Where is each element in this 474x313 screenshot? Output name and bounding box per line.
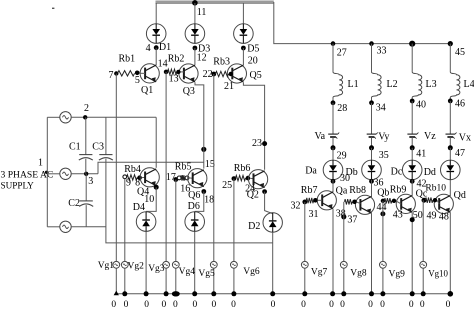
node 3 bbox=[84, 172, 88, 176]
transistor Qb bbox=[355, 195, 374, 214]
wire Rb3 to Q5 base bbox=[231, 73, 233, 75]
node 13 bbox=[164, 70, 169, 75]
wire rail to D3 bbox=[194, 3, 196, 24]
wire Vg1 bus bbox=[115, 74, 117, 294]
svg-text:4: 4 bbox=[146, 43, 151, 54]
rail junction bbox=[369, 291, 374, 296]
wire left bus bbox=[46, 117, 48, 227]
wire Q6 emitter to D6 bbox=[195, 192, 204, 212]
wire Rb2 to Q3 base bbox=[181, 71, 184, 73]
svg-text:2: 2 bbox=[84, 103, 89, 114]
svg-text:Vz: Vz bbox=[424, 131, 436, 142]
svg-text:0: 0 bbox=[124, 300, 129, 310]
wire rail to L1 bbox=[332, 44, 334, 72]
node 8 bbox=[137, 175, 142, 180]
svg-text:Rb8: Rb8 bbox=[349, 185, 366, 196]
rail junction bbox=[211, 291, 216, 296]
svg-text:40: 40 bbox=[416, 100, 426, 111]
rail junction bbox=[421, 291, 426, 296]
node Rb10 left bbox=[422, 198, 427, 203]
transistor Qa bbox=[317, 191, 336, 210]
wire diode Dc to Qc collector bbox=[411, 180, 413, 196]
wire rail to L4 bbox=[449, 44, 451, 72]
svg-text:Va: Va bbox=[315, 131, 326, 142]
source Vg5 bbox=[210, 261, 217, 268]
source Vg6 bbox=[231, 261, 238, 268]
capacitor C1 bbox=[79, 154, 92, 156]
wire node8 to Q4 base bbox=[142, 176, 145, 178]
terminal arrow at rail left end bbox=[114, 291, 119, 296]
svg-text:44: 44 bbox=[377, 202, 387, 213]
rail junction bbox=[231, 291, 236, 296]
source Vg4 bbox=[172, 261, 179, 268]
svg-text:17: 17 bbox=[166, 172, 176, 183]
svg-text:D2: D2 bbox=[248, 221, 260, 232]
wire node5 to Q1 base bbox=[139, 72, 145, 74]
svg-text:21: 21 bbox=[224, 81, 234, 92]
svg-text:3: 3 bbox=[88, 176, 93, 187]
wire node3 to C2 bbox=[85, 174, 87, 201]
wire Q3 emitter jog to node15 bus bbox=[195, 82, 204, 168]
node 28 bbox=[331, 100, 336, 105]
resistor Rb2 bbox=[168, 69, 177, 74]
wire Rb9 to Qc base bbox=[396, 201, 401, 204]
svg-text:9: 9 bbox=[126, 178, 131, 189]
node 15 bbox=[201, 147, 206, 152]
rail junction bbox=[270, 291, 275, 296]
wire Vg3 bus bbox=[165, 72, 167, 294]
svg-text:46: 46 bbox=[455, 98, 465, 109]
resistor Rb9 bbox=[384, 198, 392, 203]
svg-text:Rb10: Rb10 bbox=[425, 184, 446, 194]
svg-text:Qb: Qb bbox=[377, 187, 389, 198]
node 17 bbox=[173, 177, 178, 182]
svg-text:25: 25 bbox=[222, 180, 232, 191]
wire node 29 to diode Da bbox=[332, 148, 334, 160]
source Vg10 bbox=[420, 261, 427, 268]
wire bus to AC1 bbox=[47, 116, 60, 118]
speck artifact bbox=[52, 8, 54, 9]
wire rail to D1 bbox=[155, 3, 157, 24]
wire bus to AC2 bbox=[47, 173, 60, 175]
wire Rb8 to Qb base bbox=[357, 202, 361, 204]
svg-text:D4: D4 bbox=[133, 202, 145, 213]
svg-text:0: 0 bbox=[446, 300, 451, 310]
rail junction bbox=[192, 291, 197, 296]
svg-text:Qd: Qd bbox=[454, 190, 466, 201]
wire Vg4 bus bbox=[175, 180, 177, 294]
node 38 bbox=[341, 214, 346, 219]
svg-text:Rb2: Rb2 bbox=[168, 54, 185, 65]
svg-text:Q1: Q1 bbox=[141, 85, 153, 96]
wire node12 to Q3 collector bbox=[194, 48, 196, 65]
wire Q4 emitter to D4 bbox=[146, 187, 156, 211]
wire Rb6 to Q2 base bbox=[250, 177, 254, 180]
wire node 35 to diode Db bbox=[371, 148, 373, 160]
dc source Va bbox=[328, 133, 338, 135]
node 7 bbox=[114, 71, 118, 75]
svg-text:Q2: Q2 bbox=[247, 190, 259, 201]
transistor Q1 bbox=[140, 64, 159, 83]
diode D3 bbox=[185, 24, 205, 44]
wire Vy to node 35 bbox=[371, 137, 373, 148]
svg-text:48: 48 bbox=[439, 211, 449, 222]
svg-text:5: 5 bbox=[135, 75, 140, 86]
wire D2 to bottom rail bbox=[272, 232, 274, 294]
resistor Rb6 bbox=[236, 175, 246, 180]
svg-text:32: 32 bbox=[291, 201, 301, 212]
svg-text:SUPPLY: SUPPLY bbox=[1, 181, 35, 191]
wire Vg10 bus bbox=[422, 200, 424, 294]
rail junction bbox=[144, 291, 149, 296]
wire Rb10 to Qd base bbox=[437, 201, 439, 204]
wire rail to L2 bbox=[371, 44, 373, 72]
svg-text:0: 0 bbox=[271, 300, 276, 310]
node 29 bbox=[331, 145, 336, 150]
wire Va to node 29 bbox=[332, 137, 334, 148]
svg-text:33: 33 bbox=[377, 45, 387, 56]
wire Q2 emitter to D2 bbox=[265, 192, 273, 214]
node 11 bbox=[192, 0, 198, 6]
node 18 emitter Q6 bbox=[201, 189, 206, 194]
wire node 46 to source Vx bbox=[449, 101, 451, 134]
node 42 bbox=[410, 179, 415, 184]
source Vg9 bbox=[380, 261, 387, 268]
dc source Vx bbox=[446, 133, 456, 135]
svg-text:37: 37 bbox=[347, 215, 357, 226]
svg-text:Qa: Qa bbox=[336, 186, 348, 197]
terminal ring Rb5 right bbox=[185, 176, 189, 180]
svg-text:47: 47 bbox=[455, 148, 465, 159]
node 33 bbox=[369, 41, 374, 46]
resistor Rb4 bbox=[127, 175, 138, 180]
wire node 40 to source Vz bbox=[411, 101, 413, 134]
svg-text:Vg8: Vg8 bbox=[350, 269, 367, 279]
source Vg3 bbox=[163, 261, 170, 268]
svg-text:0: 0 bbox=[173, 300, 178, 310]
node 4 bbox=[154, 45, 159, 50]
svg-text:3 PHASE AC: 3 PHASE AC bbox=[1, 169, 54, 180]
wire top dc rail (node 11 rail) bbox=[156, 1, 274, 4]
resistor Rb7 bbox=[306, 198, 313, 203]
svg-text:Vg2: Vg2 bbox=[128, 262, 145, 272]
svg-text:22: 22 bbox=[203, 69, 213, 80]
transistor Qd bbox=[434, 194, 453, 213]
bottom zero rail bbox=[116, 293, 450, 295]
svg-text:D5: D5 bbox=[247, 43, 259, 54]
svg-text:Q3: Q3 bbox=[183, 86, 195, 97]
rail junction bbox=[122, 291, 127, 296]
wire Vg5 bus bbox=[213, 74, 215, 294]
inductor L1 bbox=[333, 72, 343, 98]
svg-text:L3: L3 bbox=[426, 79, 437, 90]
transistor Qc bbox=[396, 194, 415, 213]
svg-text:28: 28 bbox=[337, 103, 347, 114]
svg-text:Vg3: Vg3 bbox=[148, 264, 165, 274]
wire bus to AC3 bbox=[47, 226, 60, 228]
svg-text:0: 0 bbox=[340, 300, 345, 310]
node Rb3 right bbox=[229, 72, 233, 76]
transistor Q3 bbox=[179, 64, 198, 83]
svg-text:7: 7 bbox=[109, 70, 114, 81]
node junction col c bbox=[409, 41, 415, 47]
wire C1 to node3 bbox=[85, 159, 87, 174]
wire AC1 to node2 bbox=[71, 116, 156, 118]
svg-text:0: 0 bbox=[162, 300, 167, 310]
node 34 bbox=[369, 100, 374, 105]
svg-text:D1: D1 bbox=[159, 42, 171, 53]
svg-text:Vg4: Vg4 bbox=[179, 267, 196, 277]
wire C3 down to phase C and corner bbox=[106, 159, 273, 243]
svg-text:11: 11 bbox=[197, 7, 207, 18]
node 35 bbox=[369, 145, 374, 150]
svg-text:1: 1 bbox=[38, 158, 43, 169]
ac source phase B bbox=[60, 168, 71, 179]
wire Rb5 to Q6 base bbox=[189, 177, 193, 179]
svg-text:Rb7: Rb7 bbox=[301, 185, 318, 196]
svg-text:10: 10 bbox=[144, 194, 154, 205]
svg-text:Dd: Dd bbox=[424, 167, 436, 178]
diode D1 bbox=[146, 24, 166, 44]
svg-text:Dc: Dc bbox=[391, 166, 403, 177]
node Q2 emitter bbox=[262, 189, 267, 194]
svg-text:D6: D6 bbox=[188, 201, 200, 212]
wire AC2 to node3 bbox=[71, 173, 98, 175]
node 36 bbox=[369, 179, 374, 184]
wire C2 to phase C bbox=[85, 205, 87, 227]
wire Qc emitter to bottom rail bbox=[411, 212, 413, 293]
wire D6 to bottom rail bbox=[194, 232, 196, 294]
wire rail to D5 bbox=[242, 3, 244, 24]
svg-text:43: 43 bbox=[393, 210, 403, 221]
svg-text:C1: C1 bbox=[69, 141, 81, 152]
wire L3 to node 40 bbox=[411, 98, 413, 102]
node 23 bbox=[262, 141, 267, 146]
dc source Vy bbox=[367, 133, 377, 135]
node 12 bbox=[193, 46, 198, 51]
resistor Rb8 bbox=[345, 199, 353, 204]
resistor Rb5 bbox=[181, 175, 185, 180]
wire Qb emitter to bottom rail bbox=[371, 213, 373, 294]
wire node 34 to source Vy bbox=[371, 103, 373, 134]
node 10 emitter Q4 bbox=[154, 185, 159, 190]
source Vg2 bbox=[121, 261, 128, 268]
transistor Q5 bbox=[227, 64, 246, 83]
svg-text:Q6: Q6 bbox=[188, 190, 200, 201]
svg-text:0: 0 bbox=[111, 300, 116, 310]
svg-text:0: 0 bbox=[231, 300, 236, 310]
source Vg1 bbox=[113, 261, 120, 268]
diode D4 bbox=[136, 212, 156, 232]
wire Vx to node 47 bbox=[449, 137, 451, 148]
node 25 bbox=[232, 176, 237, 181]
rail junction bbox=[302, 291, 307, 296]
diode Da bbox=[323, 160, 343, 180]
node 20 bbox=[241, 46, 246, 51]
node 30 bbox=[331, 179, 336, 184]
svg-text:Vx: Vx bbox=[459, 133, 471, 144]
svg-text:23: 23 bbox=[252, 138, 262, 149]
inductor L2 bbox=[372, 72, 382, 98]
resistor Rb3 bbox=[215, 71, 228, 76]
node 44 bbox=[380, 211, 385, 216]
svg-text:20: 20 bbox=[248, 55, 258, 66]
wire rail to L3 bbox=[411, 44, 413, 72]
dc source Vz bbox=[407, 133, 417, 135]
svg-text:50: 50 bbox=[413, 210, 423, 221]
wire Vg9 bus bbox=[382, 201, 384, 294]
svg-text:Vg6: Vg6 bbox=[243, 267, 260, 277]
svg-text:L1: L1 bbox=[348, 79, 359, 90]
resistor Rb1 bbox=[118, 71, 135, 76]
svg-text:C3: C3 bbox=[92, 142, 104, 153]
source Vg8 bbox=[340, 261, 347, 268]
rail junction bbox=[330, 291, 335, 296]
rail junction end bbox=[448, 291, 454, 297]
wire rail right end down to upper-right bus bbox=[274, 2, 451, 44]
node 47 bbox=[448, 145, 453, 150]
node 2 bbox=[83, 115, 87, 119]
svg-text:0: 0 bbox=[144, 300, 149, 310]
wire diode Db to Qb collector bbox=[371, 180, 373, 197]
wire Q5 emitter jog to Q2 collector bbox=[243, 82, 264, 170]
wire L4 to node 46 bbox=[449, 98, 451, 101]
terminal node 9 bbox=[123, 175, 127, 179]
diode D2 bbox=[263, 213, 282, 232]
node Rb8 right bbox=[352, 200, 357, 205]
rail junction bbox=[380, 291, 385, 296]
wire Rb7 to Qa base bbox=[318, 199, 323, 201]
node 27 bbox=[331, 41, 336, 46]
node Rb9 right bbox=[392, 199, 396, 203]
svg-text:0: 0 bbox=[329, 300, 334, 310]
rail junction bbox=[164, 291, 169, 296]
svg-text:29: 29 bbox=[337, 150, 347, 161]
wire node20 to Q5 collector bbox=[242, 48, 244, 65]
diode Db bbox=[362, 160, 382, 180]
terminal ring Rb5 left bbox=[177, 176, 181, 180]
svg-text:18: 18 bbox=[204, 194, 214, 205]
wire L1 to node 28 bbox=[332, 98, 334, 103]
svg-text:31: 31 bbox=[309, 209, 319, 220]
wire node 28 to source Va bbox=[332, 103, 334, 134]
node 5 bbox=[135, 71, 140, 76]
wire D4 to bottom rail bbox=[145, 232, 147, 294]
inductor L3 bbox=[412, 72, 422, 98]
node Rb2 right bbox=[176, 70, 180, 74]
node Rb10 right bbox=[433, 198, 437, 202]
node 50 bbox=[410, 217, 415, 222]
svg-text:0: 0 bbox=[380, 300, 385, 310]
svg-text:0: 0 bbox=[420, 300, 425, 310]
wire Vg8 bus bbox=[343, 202, 345, 294]
resistor Rb10 bbox=[425, 198, 432, 203]
wire node 47 to diode Dd bbox=[449, 148, 451, 160]
svg-text:34: 34 bbox=[376, 102, 386, 113]
svg-text:0: 0 bbox=[409, 300, 414, 310]
diode Dc bbox=[402, 160, 422, 180]
node 45 bbox=[448, 41, 453, 46]
wire Vg6 bus bbox=[233, 179, 235, 294]
ac source phase A bbox=[60, 112, 71, 123]
node 46 bbox=[448, 99, 453, 104]
wire Vz to node 41 bbox=[411, 137, 413, 148]
node 41 bbox=[410, 145, 415, 150]
svg-text:Rb9: Rb9 bbox=[390, 185, 407, 196]
svg-text:Rb6: Rb6 bbox=[234, 163, 251, 174]
svg-text:Vg10: Vg10 bbox=[428, 269, 448, 279]
wire node4 to Q1 collector bbox=[155, 48, 157, 65]
ac source phase C bbox=[60, 221, 71, 232]
svg-text:L4: L4 bbox=[464, 79, 474, 90]
svg-text:Da: Da bbox=[305, 166, 317, 177]
diode D6 bbox=[185, 212, 205, 232]
wire L2 to node 34 bbox=[371, 98, 373, 103]
svg-text:Db: Db bbox=[346, 167, 358, 178]
svg-text:49: 49 bbox=[427, 211, 437, 222]
node 40 bbox=[410, 99, 415, 104]
svg-text:Vg5: Vg5 bbox=[198, 269, 215, 279]
node 22 bbox=[211, 72, 216, 77]
wire node2 to C1 bbox=[85, 117, 87, 154]
wire Vg7 bus bbox=[304, 202, 306, 294]
wire Qa emitter to bottom rail bbox=[332, 209, 334, 294]
wire node3 step to phase-B feed bbox=[98, 162, 204, 174]
svg-text:L2: L2 bbox=[387, 79, 398, 90]
svg-text:41: 41 bbox=[416, 148, 426, 159]
svg-text:14: 14 bbox=[158, 58, 168, 69]
wire diode Dd to Qd collector bbox=[449, 180, 451, 196]
svg-text:Rb4: Rb4 bbox=[124, 164, 141, 175]
svg-text:C2: C2 bbox=[68, 198, 80, 209]
inductor L4 bbox=[450, 72, 460, 98]
svg-text:12: 12 bbox=[197, 53, 207, 64]
node Rb7 right bbox=[313, 198, 318, 203]
svg-text:Q5: Q5 bbox=[250, 70, 262, 81]
wire Qd emitter to bottom rail bbox=[449, 212, 451, 293]
svg-text:0: 0 bbox=[301, 300, 306, 310]
transistor Q2 bbox=[249, 170, 268, 189]
svg-text:0: 0 bbox=[212, 300, 217, 310]
rail junction wide bbox=[172, 291, 180, 296]
capacitor C3 bbox=[99, 154, 112, 156]
wire Vg2 bus bbox=[124, 179, 126, 294]
diode D5 bbox=[234, 24, 254, 44]
node 1 bbox=[45, 171, 48, 174]
transistor Q6 bbox=[188, 169, 207, 188]
svg-text:Rb3: Rb3 bbox=[213, 57, 230, 68]
svg-text:Rb5: Rb5 bbox=[175, 161, 192, 172]
wire diode Da to Qa collector bbox=[332, 180, 334, 192]
node 32 bbox=[302, 200, 307, 205]
svg-text:0: 0 bbox=[368, 300, 373, 310]
rail junction bbox=[410, 291, 415, 296]
svg-text:Rb1: Rb1 bbox=[119, 54, 136, 65]
wire AC3 to C3 line bbox=[71, 226, 106, 228]
svg-text:27: 27 bbox=[337, 47, 347, 58]
node Rb6 right bbox=[246, 176, 251, 181]
svg-text:Vy: Vy bbox=[378, 131, 389, 142]
svg-text:Vg9: Vg9 bbox=[389, 270, 406, 280]
node Rb9 left bbox=[381, 199, 385, 203]
transistor Q4 bbox=[140, 168, 159, 187]
wire phaseA to C3 bbox=[105, 117, 107, 154]
svg-text:Vg7: Vg7 bbox=[311, 268, 328, 278]
diode Dd bbox=[441, 160, 461, 180]
wire node 41 to diode Dc bbox=[411, 148, 413, 160]
source Vg7 bbox=[301, 261, 308, 268]
wire phaseA bus to Q4 collector bbox=[155, 117, 157, 168]
